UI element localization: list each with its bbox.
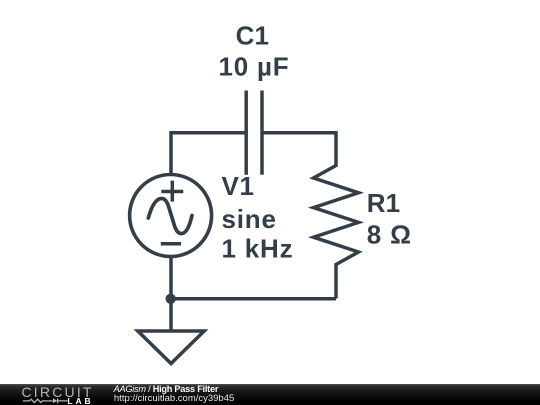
svg-text:8 Ω: 8 Ω bbox=[367, 220, 412, 250]
svg-text:R1: R1 bbox=[367, 188, 400, 218]
svg-text:LAB: LAB bbox=[67, 396, 93, 405]
svg-text:sine: sine bbox=[222, 204, 277, 234]
svg-text:C1: C1 bbox=[236, 21, 269, 51]
svg-text:V1: V1 bbox=[222, 171, 255, 201]
svg-text:10 µF: 10 µF bbox=[218, 52, 289, 82]
svg-text:1 kHz: 1 kHz bbox=[222, 234, 294, 264]
